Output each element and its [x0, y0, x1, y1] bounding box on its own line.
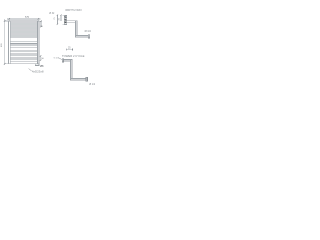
plan view pipe horizontal bottom: [70, 78, 86, 80]
bracket hatch 1: [65, 15, 67, 18]
top width dimension line: [7, 18, 40, 20]
side view pipe vertical: [75, 21, 77, 37]
bar 3: [10, 31, 37, 33]
side view bottom extension line: [63, 23, 65, 25]
top frame line: [9, 20, 39, 22]
plan small dim tick right: [71, 48, 73, 50]
plan view small dim line: [66, 48, 72, 50]
bar 4: [10, 35, 37, 37]
top dimension extension right: [37, 18, 39, 20]
svg-text:Ø=1/2: Ø=1/2: [85, 31, 92, 33]
plan view right cap: [86, 77, 88, 81]
bar 5: [10, 41, 37, 43]
side view inner dim line: [60, 15, 62, 21]
left dimension bottom tick: [4, 63, 6, 65]
svg-text:Ø8: Ø8: [40, 65, 44, 68]
plan view pipe vertical: [70, 59, 72, 80]
plan small dim tick left: [65, 48, 67, 50]
bar 8: [10, 55, 37, 57]
right lower dim tick2: [40, 60, 42, 61]
left dimension top tick: [4, 20, 6, 22]
side view end cap: [88, 35, 90, 38]
bar 7: [10, 51, 37, 53]
side view pipe horizontal bottom: [75, 36, 88, 38]
right pitch dim top tick: [40, 21, 42, 22]
right pitch dimension top: [40, 21, 42, 26]
svg-text:4xD25x8: 4xD25x8: [32, 71, 44, 74]
side dim tick c: [60, 15, 61, 16]
top dimension extension left: [8, 18, 10, 20]
bracket hatch 2: [65, 17, 67, 20]
bar 2: [10, 27, 37, 29]
svg-text:Ø 1/2: Ø 1/2: [89, 83, 96, 86]
side view outer dim line: [56, 15, 58, 24]
right pitch extension line: [39, 20, 42, 22]
left dimension extension bottom: [4, 63, 8, 65]
top dimension right tick: [38, 18, 40, 20]
right lower dim tick1: [40, 55, 42, 56]
bracket hatch 4: [65, 20, 67, 23]
bracket hatch 5: [65, 21, 67, 24]
left height dimension line: [4, 19, 6, 65]
top dimension left tick: [8, 18, 10, 20]
side view top extension line: [63, 14, 67, 16]
side dim tick b: [57, 24, 58, 25]
plan view left cap: [62, 59, 64, 62]
svg-text:TOWER 2 CYCLE: TOWER 2 CYCLE: [62, 55, 85, 58]
svg-text:Ø 32: Ø 32: [49, 13, 55, 15]
side view pipe horizontal top: [67, 21, 77, 23]
bottom frame line: [9, 63, 39, 65]
bottom note leader line: [29, 69, 32, 71]
wall bracket: [64, 15, 66, 24]
towel rail front view: left rail: [9, 21, 11, 64]
side dim tick a: [57, 15, 58, 16]
left dimension extension top: [4, 20, 8, 22]
plan view left label leader: [59, 58, 62, 60]
svg-text:575: 575: [25, 16, 30, 19]
bar 1: [10, 23, 37, 25]
right pitch dimension lower: [40, 56, 42, 60]
bar 6: [10, 45, 37, 47]
svg-text:800: 800: [1, 43, 3, 47]
towel rail front view: right rail: [37, 21, 39, 64]
bar 9: [10, 59, 37, 61]
bracket hatch 3: [65, 18, 67, 21]
svg-text:WIDTH 2 WAY: WIDTH 2 WAY: [65, 9, 82, 12]
right pitch dim bottom tick: [40, 26, 42, 27]
plan view pipe horizontal top: [64, 59, 72, 61]
bottom right foot fitting: [35, 64, 39, 66]
